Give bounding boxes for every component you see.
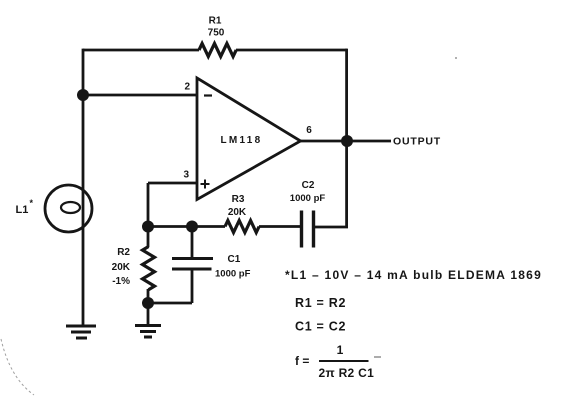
- wire: right vertical from R1 to C2 level: [345, 49, 348, 228]
- plus sign: [201, 180, 210, 189]
- svg-text:C1 = C2: C1 = C2: [295, 320, 346, 334]
- wire: pin 3 horizontal: [148, 182, 197, 185]
- wire: C2 to right vertical: [315, 226, 348, 229]
- wire: to pin 2: [83, 94, 197, 97]
- wire: output: [300, 140, 391, 143]
- capacitor C1: [172, 259, 213, 270]
- wire: bottom link C1 to R2: [148, 302, 192, 305]
- wire: mid horizontal to R3: [148, 225, 225, 228]
- node: bottom junction: [142, 297, 154, 309]
- svg-text:20K: 20K: [228, 207, 247, 218]
- svg-text:C2: C2: [302, 180, 315, 191]
- wire: R2 top connector: [147, 227, 150, 248]
- svg-text:R3: R3: [232, 194, 245, 205]
- minus sign: [204, 94, 212, 96]
- resistor R3: [225, 221, 259, 233]
- scan arc bottom-left: [1, 339, 34, 395]
- op-amp U1 LM118: [197, 78, 301, 200]
- node: C1 top junction: [186, 221, 198, 233]
- ground under R2: [135, 326, 161, 338]
- svg-text:f =: f =: [295, 354, 309, 368]
- svg-text:20K: 20K: [112, 262, 131, 273]
- wire: C1 bottom stub: [191, 269, 194, 303]
- stray dot: [455, 57, 457, 59]
- wire: left vertical rail through bulb: [82, 49, 85, 326]
- resistor R1: [199, 44, 236, 57]
- svg-text:1000 pF: 1000 pF: [215, 269, 251, 280]
- wire: R2 bottom connector: [147, 289, 150, 303]
- formula fraction bar: [319, 360, 369, 362]
- stray dash: [374, 356, 381, 358]
- svg-text:750: 750: [208, 28, 225, 39]
- node: output junction: [341, 135, 353, 147]
- svg-text:OUTPUT: OUTPUT: [393, 136, 441, 148]
- wire: C1 top stub: [191, 227, 194, 259]
- svg-text:R2: R2: [117, 247, 130, 258]
- svg-text:6: 6: [306, 125, 312, 136]
- wire: ground stem: [147, 303, 150, 325]
- node: junction inverting input: [77, 89, 89, 101]
- wire: R3 to C2: [259, 225, 300, 228]
- svg-text:2π R2 C1: 2π R2 C1: [319, 366, 375, 380]
- node: + input node: [142, 221, 154, 233]
- svg-text:3: 3: [183, 170, 189, 181]
- svg-text:1: 1: [337, 343, 344, 357]
- ground under L1: [66, 326, 96, 338]
- lamp L1: [45, 185, 92, 232]
- svg-text:2: 2: [184, 82, 190, 93]
- svg-text:*: *: [30, 198, 34, 208]
- svg-text:C1: C1: [228, 254, 241, 265]
- svg-text:*L1 – 10V – 14 mA bulb ELDEMA: *L1 – 10V – 14 mA bulb ELDEMA 1869: [285, 268, 542, 282]
- svg-text:R1 = R2: R1 = R2: [295, 296, 346, 310]
- wire: top feedback, right segment: [236, 49, 347, 52]
- wire: pin 3 vertical down: [147, 183, 150, 226]
- svg-text:LM118: LM118: [220, 135, 262, 146]
- svg-text:R1: R1: [209, 16, 222, 27]
- svg-text:L1: L1: [16, 204, 29, 216]
- svg-text:1000 pF: 1000 pF: [290, 193, 326, 204]
- svg-text:-1%: -1%: [112, 276, 130, 287]
- wire: top feedback, left segment: [83, 49, 199, 52]
- capacitor C2: [302, 211, 314, 248]
- resistor R2: [143, 247, 155, 290]
